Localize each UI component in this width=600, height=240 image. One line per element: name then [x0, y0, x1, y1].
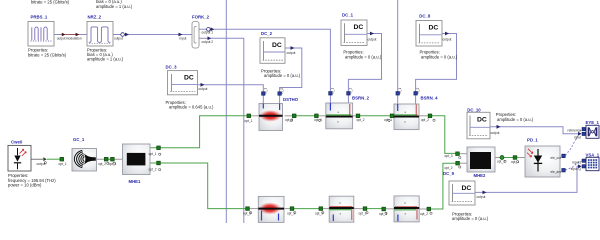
svg-text:opt_1: opt_1 — [314, 118, 322, 122]
PRBS generator PRBS_1 — [28, 15, 82, 58]
MZM modulator lower (cropped at bottom) — [243, 196, 295, 222]
svg-text:DC: DC — [184, 75, 194, 82]
svg-text:output: output — [199, 87, 208, 91]
svg-text:PRBS_1: PRBS_1 — [31, 15, 48, 20]
wire: upper optical line BSRN_2 to BSRN_4 — [353, 115, 357, 117]
svg-text:DC: DC — [462, 185, 472, 192]
svg-text:output: output — [114, 36, 123, 40]
phase modulator lower PM2 (cropped at bottom) — [379, 196, 431, 222]
svg-text:DSTHO: DSTHO — [283, 97, 299, 102]
svg-text:DC: DC — [429, 25, 439, 32]
DC source DC_8 — [416, 14, 458, 60]
svg-text:FORK_2: FORK_2 — [192, 15, 210, 20]
svg-text:opt_2: opt_2 — [421, 118, 429, 122]
svg-text:power = 10 (dBm): power = 10 (dBm) — [8, 182, 42, 187]
svg-text:amplitude = 1 (a.u.): amplitude = 1 (a.u.) — [96, 4, 133, 9]
svg-text:opt_1: opt_1 — [511, 160, 519, 164]
svg-text:amplitude = 0 (a.u.): amplitude = 0 (a.u.) — [421, 54, 458, 59]
svg-text:modulation: modulation — [66, 37, 82, 41]
svg-text:opt_1: opt_1 — [379, 212, 387, 216]
wire: optical MHE1 opt_1 up to DSTHO opt_1 — [150, 116, 247, 148]
splitter MHE1 — [109, 144, 161, 184]
svg-text:opt_1: opt_1 — [59, 162, 67, 166]
svg-text:opt_2: opt_2 — [359, 212, 367, 216]
svg-text:DC: DC — [354, 24, 364, 31]
svg-text:amplitude = 0 (a.u.): amplitude = 0 (a.u.) — [497, 117, 534, 122]
wire: optical BSRN_4 opt_2 down to MHE2 opt_3 — [419, 115, 428, 117]
svg-text:el_2: el_2 — [349, 88, 353, 94]
combiner MHE2 — [445, 147, 506, 178]
svg-text:amplitude = 0 (a.u.): amplitude = 0 (a.u.) — [264, 73, 301, 78]
DC source DC_2 — [260, 31, 301, 78]
wire: gray stub DSTHO opt_1 to box — [251, 115, 259, 117]
port hook curls (decorative port markers) — [44, 119, 518, 214]
DC source DC_10 — [467, 107, 534, 139]
svg-text:output: output — [287, 51, 296, 55]
wire: vertical bus from top edge down to BSRN_4 el_1 at x=398 — [397, 0, 399, 92]
svg-text:output: output — [368, 37, 377, 41]
svg-text:amplitude = 0 (a.u.): amplitude = 0 (a.u.) — [452, 216, 489, 221]
wire: optical GC_1 to MHE1 — [97, 158, 123, 160]
svg-text:opt_1: opt_1 — [497, 159, 505, 163]
svg-text:output 1: output 1 — [202, 31, 214, 35]
DC source DC_9 — [443, 171, 489, 221]
svg-text:opt_2: opt_2 — [357, 118, 365, 122]
svg-text:PD_1: PD_1 — [527, 138, 538, 143]
svg-text:ele_am: ele_am — [551, 170, 562, 174]
vector signal analyzer VSA_1 — [571, 152, 600, 171]
wire: DC_3 output to DSTHO el_1 — [198, 85, 264, 92]
svg-text:opt_2: opt_2 — [98, 162, 106, 166]
svg-text:DC_3: DC_3 — [166, 65, 178, 70]
svg-text:output 2: output 2 — [202, 40, 214, 44]
svg-text:output: output — [477, 195, 486, 199]
svg-text:output: output — [37, 162, 46, 166]
svg-text:opt_1: opt_1 — [287, 212, 295, 216]
svg-text:DC_8: DC_8 — [419, 14, 431, 19]
svg-text:output: output — [443, 37, 452, 41]
wire: dashed PD_1 ele_amp to VSA_1 input1 — [565, 161, 581, 170]
NRZ coder NRZ_2 — [87, 15, 129, 62]
svg-text:el_1: el_1 — [331, 88, 335, 94]
MZM modulator DSTHO (upper) — [245, 88, 299, 131]
svg-text:MHE2: MHE2 — [474, 173, 487, 178]
svg-text:opt_2: opt_2 — [420, 212, 428, 216]
phase modulator lower PM1 (cropped at bottom) — [315, 196, 367, 222]
svg-text:VSA_1: VSA_1 — [586, 152, 600, 157]
wire: lower optical line PM1 to PM2 — [354, 208, 363, 210]
svg-text:opt_1: opt_1 — [149, 152, 157, 156]
svg-text:el_2: el_2 — [280, 88, 284, 94]
wire: DC_2 output to DSTHO el_2 — [280, 48, 302, 92]
svg-text:ele_out: ele_out — [551, 156, 562, 160]
svg-text:input: input — [574, 135, 581, 139]
wire: optical laser to GC_1 — [47, 158, 60, 160]
svg-text:el_1: el_1 — [264, 88, 268, 94]
svg-text:output: output — [57, 37, 66, 41]
wire: NRZ_2 output to FORK_2 input — [113, 34, 192, 36]
wire: optical PM2 opt_2 up to MHE2 opt_2 — [419, 208, 427, 210]
wire: optical MHE2 opt_1 to PD_1 — [495, 157, 500, 159]
svg-text:opt_2: opt_2 — [149, 168, 157, 172]
svg-text:opt_2: opt_2 — [243, 212, 251, 216]
wire: upper optical line DSTHO to BSRN_2 — [285, 115, 293, 117]
svg-text:BSRN_2: BSRN_2 — [352, 96, 370, 101]
svg-text:BSRN_4: BSRN_4 — [421, 96, 439, 101]
svg-text:EYE_1: EYE_1 — [586, 120, 600, 125]
svg-text:DC: DC — [272, 42, 282, 49]
DC source DC_3 — [166, 65, 214, 110]
wire: el port stubs upper modulators — [263, 95, 415, 104]
wire: DC_9 output to VSA_1 input Q — [475, 166, 581, 192]
svg-text:input Q: input Q — [571, 167, 582, 171]
svg-text:input: input — [180, 37, 187, 41]
svg-text:el_1: el_1 — [398, 88, 402, 94]
wire: vertical bus from top edge down to bottom edge at x=226 — [225, 0, 227, 223]
svg-text:DC: DC — [477, 116, 487, 123]
svg-text:MHE1: MHE1 — [129, 179, 142, 184]
svg-text:opt_3: opt_3 — [445, 154, 453, 158]
svg-text:opt_1: opt_1 — [384, 118, 392, 122]
svg-text:opt_2: opt_2 — [445, 166, 453, 170]
DC source DC_1 — [341, 12, 382, 59]
svg-text:output: output — [491, 131, 500, 135]
svg-text:GC_1: GC_1 — [73, 137, 85, 142]
wire: DC_10 output to EYE_1 input — [490, 127, 581, 134]
wire: FORK_2 output1 to BSRN_2 el_1 — [199, 29, 330, 91]
wire: lower optical line MZM to PM1 — [249, 208, 258, 210]
svg-text:DC_9: DC_9 — [443, 171, 455, 176]
svg-text:opt_1: opt_1 — [245, 119, 253, 123]
svg-text:el_2: el_2 — [416, 88, 420, 94]
svg-text:amplitude = 1 (a.u.): amplitude = 1 (a.u.) — [87, 57, 124, 62]
svg-text:opt_1: opt_1 — [109, 162, 117, 166]
wire: PRBS_1 output to NRZ_2 modulation — [54, 34, 87, 36]
wire: optical MHE1 opt_2 down to lower MZM opt_2 — [150, 163, 246, 209]
CW laser Cwe0 — [8, 139, 56, 187]
wire: FORK_2 output2 down to bottom edge — [199, 38, 244, 223]
wire: dashed PD_1 ele_out to EYE_1 reference — [565, 130, 581, 156]
svg-text:bitrate = 25 (Gbits/s): bitrate = 25 (Gbits/s) — [31, 0, 70, 5]
svg-text:amplitude = 0.645 (a.u.): amplitude = 0.645 (a.u.) — [169, 105, 214, 110]
svg-text:NRZ_2: NRZ_2 — [88, 15, 102, 20]
fork FORK_2 — [179, 15, 215, 49]
coupler GC_1 — [59, 137, 109, 171]
svg-text:bitrate = 25 (Gbits/s): bitrate = 25 (Gbits/s) — [28, 52, 67, 57]
phase modulator BSRN_4 (upper) — [384, 88, 438, 130]
cropped property text of blocks above top edge — [31, 0, 133, 9]
svg-text:DC_2: DC_2 — [261, 31, 273, 36]
photodiode PD_1 — [511, 138, 565, 178]
phase modulator BSRN_2 (upper) — [314, 88, 370, 129]
svg-text:Cwe0: Cwe0 — [11, 139, 23, 144]
eye analyzer EYE_1 — [568, 120, 600, 139]
svg-text:reference: reference — [568, 128, 582, 132]
svg-text:DC_10: DC_10 — [467, 107, 481, 112]
svg-text:amplitude = 0 (a.u.): amplitude = 0 (a.u.) — [345, 54, 382, 59]
wire: DC_1 output to BSRN_2 el_2 — [348, 34, 381, 92]
svg-text:DC_1: DC_1 — [342, 12, 354, 17]
svg-text:opt_2: opt_2 — [285, 118, 293, 122]
wire: DC_8 output to BSRN_4 el_2 — [416, 34, 457, 92]
svg-text:opt_1: opt_1 — [315, 212, 323, 216]
svg-text:input1: input1 — [572, 160, 581, 164]
